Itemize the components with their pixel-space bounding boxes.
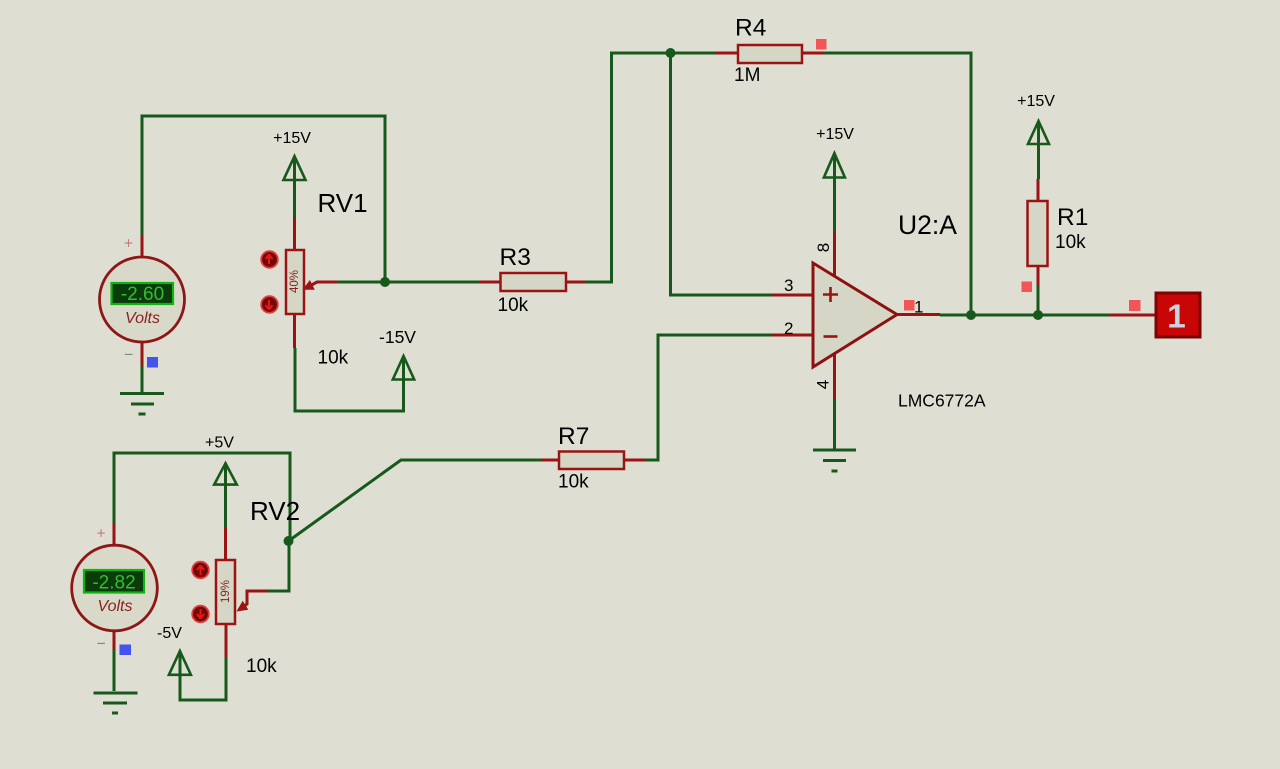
resistor R3	[480, 244, 586, 316]
power -15V symbol near RV1	[393, 356, 414, 380]
svg-text:-5V: -5V	[157, 625, 182, 642]
wire op-amp output to probe	[940, 314, 1110, 317]
marker R4 right	[816, 39, 827, 50]
wire VM2 - to ground	[113, 650, 116, 691]
node output/R4	[966, 310, 976, 320]
probe marker blue	[147, 357, 158, 368]
voltmeter VM1	[100, 236, 185, 368]
svg-text:Volts: Volts	[98, 598, 133, 615]
node output/R1	[1033, 310, 1043, 320]
svg-text:3: 3	[784, 276, 793, 295]
potentiometer RV2	[192, 496, 300, 677]
svg-text:−: −	[96, 636, 105, 653]
pin 2 stub	[772, 334, 813, 337]
svg-text:+15V: +15V	[816, 126, 854, 143]
wire RV1 +15V arrow line	[293, 156, 296, 217]
svg-text:1: 1	[1167, 299, 1186, 336]
wire RV2 bottom to -5V	[180, 651, 226, 700]
pin 4 stub	[833, 353, 836, 400]
svg-text:10k: 10k	[246, 656, 277, 677]
svg-text:8: 8	[814, 243, 833, 252]
svg-text:4: 4	[813, 380, 832, 389]
svg-text:LMC6772A: LMC6772A	[898, 391, 986, 411]
ground below op-amp pin4	[813, 450, 856, 471]
svg-text:19%: 19%	[220, 580, 232, 603]
node A (R3/R4/pin3)	[666, 48, 676, 58]
wire RV1 wiper node to R3	[337, 281, 480, 284]
resistor R7	[541, 423, 645, 493]
svg-text:+: +	[96, 526, 105, 543]
plus mark	[823, 287, 838, 302]
voltmeter VM2	[72, 523, 158, 655]
op-amp U2:A	[772, 210, 986, 411]
wire +5V rail VM2+	[114, 453, 290, 541]
marker R1 bottom	[1022, 282, 1033, 293]
ground below VM1	[120, 394, 164, 415]
svg-text:10k: 10k	[558, 472, 589, 493]
button RV1 down	[261, 296, 278, 313]
pin 3 stub	[772, 294, 813, 297]
button RV2 up	[192, 562, 209, 579]
node RV1 wiper junction	[380, 277, 390, 287]
resistor R4	[716, 15, 823, 87]
marker probe input	[1129, 300, 1141, 311]
svg-text:R3: R3	[500, 244, 531, 271]
pin 1 stub	[897, 313, 940, 316]
svg-text:1M: 1M	[734, 65, 760, 86]
marker op-amp output	[904, 300, 915, 311]
svg-text:+5V: +5V	[205, 435, 234, 452]
wire R3 right to R4 rail	[586, 53, 716, 282]
button RV2 down	[192, 606, 209, 623]
svg-text:U2:A: U2:A	[898, 210, 957, 240]
wire VM1 - to ground	[141, 366, 144, 393]
node RV2 wiper junction	[284, 536, 294, 546]
svg-text:+: +	[124, 236, 133, 253]
wire pin8 supply	[833, 154, 836, 233]
wire VM1+ top rail to RV1 wiper node	[142, 116, 385, 282]
svg-text:-15V: -15V	[379, 327, 416, 347]
svg-text:-2.82: -2.82	[92, 573, 135, 594]
power +15V symbol above R1	[1028, 121, 1049, 144]
svg-text:10k: 10k	[318, 348, 349, 369]
potentiometer RV1	[261, 188, 367, 369]
pin 8 stub	[833, 231, 836, 277]
svg-text:10k: 10k	[1055, 232, 1086, 253]
wire R1 bottom	[1037, 286, 1040, 315]
wire R1 +15V arrow line	[1037, 121, 1040, 179]
wire RV2 +5V arrow line	[224, 463, 227, 528]
button RV1 up	[261, 251, 278, 268]
power -5V symbol near RV2	[169, 651, 191, 675]
power +15V symbol above RV1	[284, 156, 306, 180]
logic probe output	[1110, 293, 1200, 337]
wire RV1 bottom to -15V	[295, 348, 404, 411]
power +5V symbol above RV2	[214, 463, 237, 484]
svg-text:1: 1	[914, 298, 923, 317]
wire R4 right to output node	[823, 53, 971, 315]
svg-text:RV2: RV2	[250, 496, 300, 526]
wire node A to op-amp pin3	[671, 53, 773, 295]
svg-text:−: −	[124, 347, 133, 364]
svg-text:R7: R7	[558, 423, 589, 450]
svg-text:RV1: RV1	[318, 188, 368, 218]
wiper RV1	[306, 282, 337, 288]
svg-text:-2.60: -2.60	[121, 284, 164, 305]
svg-text:Volts: Volts	[125, 310, 160, 327]
wire R7 right to op-amp pin2	[645, 335, 772, 460]
ground below VM2	[94, 693, 138, 713]
wiper RV2	[239, 591, 268, 610]
wire pin4 to ground	[833, 400, 836, 450]
wire RV2 wiper to node	[268, 541, 289, 591]
svg-text:+15V: +15V	[273, 130, 311, 147]
resistor R1	[1028, 179, 1089, 286]
minus mark	[824, 335, 838, 338]
probe marker blue	[120, 645, 132, 656]
power +15V symbol above op-amp pin8	[824, 153, 845, 177]
wire R7 left diagonal to RV2 wiper node	[289, 460, 542, 541]
svg-text:+15V: +15V	[1017, 93, 1055, 110]
svg-text:10k: 10k	[498, 295, 529, 316]
svg-text:R4: R4	[735, 15, 766, 42]
svg-text:R1: R1	[1057, 204, 1088, 231]
svg-text:40%: 40%	[289, 270, 301, 293]
svg-text:2: 2	[784, 319, 793, 338]
